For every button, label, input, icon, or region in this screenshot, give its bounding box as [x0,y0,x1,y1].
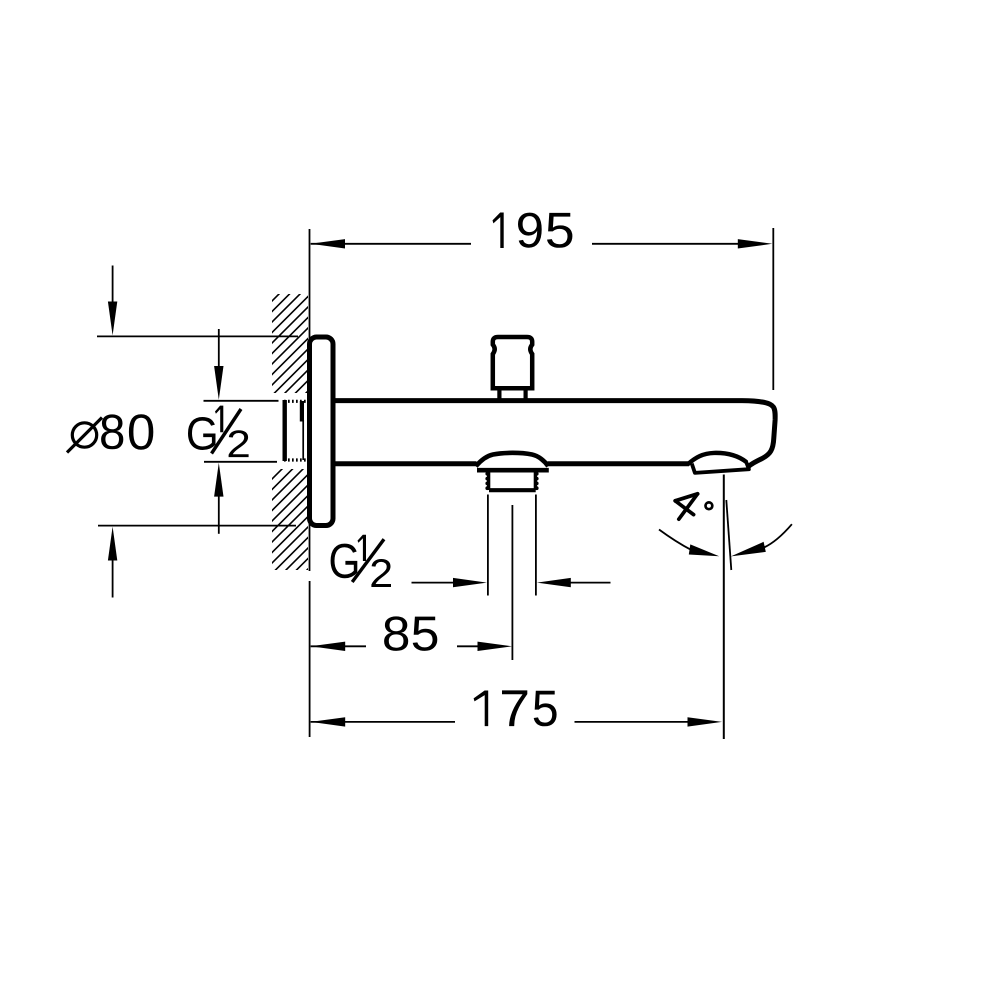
diverter knob neck [497,390,501,400]
dimension diameter 80 [97,266,298,598]
spout body top edge [333,401,775,468]
dimension 175 [310,581,689,737]
angle arc left [659,530,691,550]
wall face line [309,229,311,571]
label Ø80 [72,423,96,447]
value label 175 [474,690,557,726]
spout outlet ring [692,461,749,473]
wall hatching (lower section) [262,433,318,626]
spout tip centre line [723,475,725,740]
spout body bottom edge [333,461,477,466]
wall flange (Ø80 plate) [310,337,334,526]
handshower outlet dome [476,453,548,466]
dimension 195 [311,228,774,390]
label G1/2 (wall inlet) [188,417,216,450]
label 4 degrees [675,494,697,519]
nipple thread bumps [485,472,538,490]
value label 195 [493,213,573,249]
dimension arrows at nipple [412,495,611,596]
threaded wall inlet G1/2 [284,400,306,461]
label G1/2 (nipple) [331,544,358,579]
handshower outlet base bar [477,468,549,473]
threaded nipple G1/2 [489,471,536,490]
diverter knob [493,337,532,388]
dimension 85 [311,645,480,647]
dimension G1/2 (wall inlet) [204,329,279,534]
wall hatching (upper section) [262,255,318,458]
outlet centre line (nipple) [511,505,513,660]
spout outlet bulge [688,453,747,464]
value label 85 [384,616,437,651]
tilted 4-degree line [726,500,731,570]
angle arc right [764,524,792,547]
